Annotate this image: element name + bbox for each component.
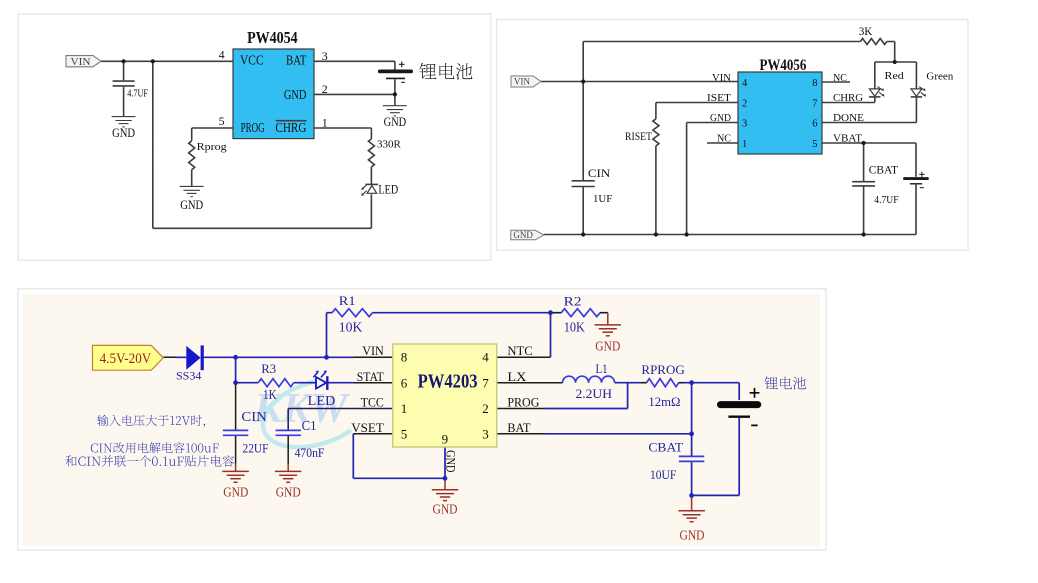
svg-text:NC: NC — [717, 133, 731, 144]
svg-text:8: 8 — [401, 350, 408, 365]
svg-text:4: 4 — [482, 350, 489, 365]
svg-text:L1: L1 — [596, 362, 608, 376]
svg-text:8: 8 — [812, 78, 817, 89]
svg-text:LED: LED — [378, 183, 398, 197]
svg-text:3: 3 — [482, 426, 489, 441]
svg-text:5: 5 — [812, 139, 817, 150]
svg-text:22UF: 22UF — [243, 441, 269, 456]
svg-text:Green: Green — [926, 70, 953, 82]
svg-text:10K: 10K — [564, 321, 585, 336]
svg-text:7: 7 — [812, 99, 817, 110]
svg-text:TCC: TCC — [361, 394, 384, 409]
svg-text:GND: GND — [223, 485, 248, 500]
svg-text:CHRG: CHRG — [833, 93, 863, 104]
svg-text:NC: NC — [833, 73, 847, 84]
svg-text:4.7UF: 4.7UF — [874, 194, 898, 206]
svg-text:GND: GND — [680, 527, 705, 542]
svg-text:1: 1 — [322, 115, 328, 129]
svg-text:6: 6 — [812, 119, 817, 130]
svg-text:LX: LX — [507, 369, 527, 384]
svg-text:Red: Red — [885, 70, 905, 82]
svg-text:PROG: PROG — [241, 120, 265, 135]
svg-text:PW4056: PW4056 — [760, 57, 807, 74]
svg-text:VIN: VIN — [71, 57, 91, 68]
svg-text:GND: GND — [444, 450, 459, 472]
svg-text:GND: GND — [284, 87, 307, 102]
svg-text:CBAT: CBAT — [648, 439, 683, 454]
svg-text:10K: 10K — [339, 321, 363, 336]
svg-text:3: 3 — [322, 49, 328, 63]
svg-text:PROG: PROG — [507, 394, 539, 409]
svg-text:1K: 1K — [263, 388, 277, 403]
svg-text:GND: GND — [595, 339, 620, 354]
svg-text:STAT: STAT — [357, 369, 384, 384]
svg-text:2.2UH: 2.2UH — [576, 386, 613, 401]
svg-text:VCC: VCC — [240, 53, 264, 68]
svg-text:Rprog: Rprog — [197, 141, 228, 153]
svg-text:VBAT: VBAT — [833, 133, 863, 144]
svg-text:RPROG: RPROG — [641, 362, 684, 377]
svg-text:3: 3 — [742, 119, 747, 130]
svg-text:4.7UF: 4.7UF — [127, 88, 148, 99]
svg-text:VIN: VIN — [362, 343, 384, 358]
svg-text:GND: GND — [276, 485, 301, 500]
svg-text:1: 1 — [401, 401, 408, 416]
svg-text:2: 2 — [482, 401, 489, 416]
svg-text:1: 1 — [742, 139, 747, 150]
svg-text:4: 4 — [219, 47, 225, 61]
svg-text:LED: LED — [308, 393, 336, 408]
svg-text:VIN: VIN — [712, 73, 731, 84]
svg-text:4: 4 — [742, 78, 748, 89]
svg-text:NTC: NTC — [507, 343, 532, 358]
svg-text:GND: GND — [112, 125, 135, 140]
svg-text:5: 5 — [401, 426, 408, 441]
svg-text:CHRG: CHRG — [275, 120, 306, 135]
svg-text:5: 5 — [219, 114, 225, 128]
svg-text:GND: GND — [180, 197, 203, 212]
svg-text:VIN: VIN — [514, 78, 530, 88]
svg-text:GND: GND — [433, 502, 458, 517]
svg-text:2: 2 — [322, 82, 328, 96]
svg-text:330R: 330R — [377, 139, 402, 151]
svg-text:GND: GND — [384, 114, 407, 129]
svg-text:3K: 3K — [859, 26, 873, 38]
svg-text:ISET: ISET — [707, 93, 732, 104]
svg-text:9: 9 — [442, 432, 449, 447]
svg-text:CBAT: CBAT — [869, 163, 899, 177]
svg-text:R1: R1 — [339, 293, 356, 308]
svg-text:VSET: VSET — [351, 420, 384, 435]
svg-text:R2: R2 — [564, 294, 582, 309]
svg-text:7: 7 — [482, 375, 489, 390]
svg-text:4.5V-20V: 4.5V-20V — [100, 351, 152, 367]
svg-text:DONE: DONE — [833, 113, 864, 124]
svg-text:470nF: 470nF — [295, 445, 325, 460]
svg-text:10UF: 10UF — [650, 467, 676, 482]
svg-text:1UF: 1UF — [593, 193, 612, 205]
svg-text:CIN: CIN — [588, 166, 611, 180]
svg-text:R3: R3 — [261, 361, 276, 376]
svg-text:CIN: CIN — [241, 409, 267, 424]
svg-text:RISET: RISET — [625, 131, 652, 143]
svg-text:2: 2 — [742, 99, 747, 110]
svg-text:12mΩ: 12mΩ — [648, 394, 680, 409]
svg-text:C1: C1 — [302, 418, 317, 433]
svg-text:SS34: SS34 — [176, 370, 202, 382]
svg-text:GND: GND — [513, 231, 533, 241]
svg-text:BAT: BAT — [286, 53, 307, 68]
svg-text:PW4054: PW4054 — [247, 28, 298, 47]
svg-text:GND: GND — [710, 113, 731, 124]
svg-text:6: 6 — [401, 375, 408, 390]
svg-text:PW4203: PW4203 — [418, 371, 478, 393]
svg-text:BAT: BAT — [507, 420, 530, 435]
